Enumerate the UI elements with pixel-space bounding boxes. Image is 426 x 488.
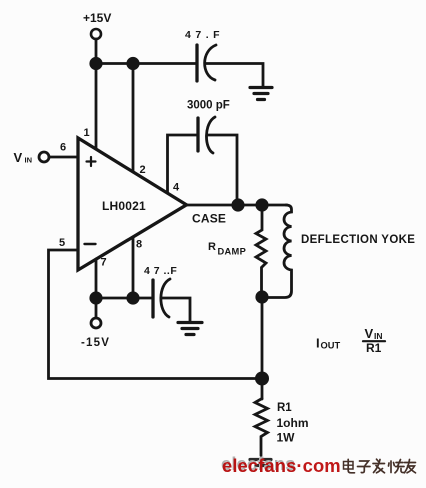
svg-text:-15V: -15V: [81, 337, 110, 349]
svg-text:6: 6: [60, 142, 66, 154]
svg-text:2: 2: [140, 164, 146, 176]
char fa: [373, 459, 385, 473]
svg-text:R1: R1: [366, 341, 382, 355]
op-amp plus input marking: [87, 157, 96, 166]
char dian: [344, 459, 355, 473]
pin 4 label: [173, 182, 180, 194]
resistor R1: [255, 399, 268, 456]
svg-text:1ohm: 1ohm: [277, 416, 309, 430]
resistor RDAMP: [256, 205, 266, 297]
char shao: [389, 460, 405, 473]
pin 2 label: [140, 164, 146, 176]
pin 5 label: [59, 237, 65, 249]
wire yoke bottom down to feedback node: [261, 297, 264, 379]
junction dot at +15V rail left: [89, 57, 102, 70]
CASE label: [192, 212, 226, 226]
junction dot output C2: [231, 198, 244, 211]
svg-text:IN: IN: [374, 331, 383, 341]
wire from +15V terminal down: [95, 39, 98, 64]
junction dot yoke bottom: [255, 290, 268, 303]
watermark elecfans.com: [221, 453, 341, 476]
wire C3 right to ground: [162, 298, 190, 321]
svg-text:1W: 1W: [277, 431, 296, 445]
capacitor C1 4.7uF label: [185, 29, 220, 41]
capacitor C1 curved plate: [205, 45, 216, 80]
wire pin 2 from rail to op-amp: [132, 64, 135, 174]
svg-text:LH0021: LH0021: [102, 199, 146, 213]
svg-text:3000 pF: 3000 pF: [187, 100, 230, 112]
fraction bar: [363, 340, 385, 342]
svg-text:8: 8: [136, 239, 142, 251]
-15V label: [81, 337, 110, 349]
watermark chinese 电子发烧友: [344, 459, 416, 473]
ground G3 under R1: [250, 460, 271, 466]
Vin terminal: [39, 152, 49, 162]
pin 6 label: [60, 142, 66, 154]
capacitor C2 left wire and riser to pin 4: [168, 135, 198, 192]
op-amp minus input marking: [85, 243, 96, 245]
svg-text:elecfans·com: elecfans·com: [222, 455, 341, 476]
svg-text:V: V: [14, 150, 23, 165]
svg-text:OUT: OUT: [321, 341, 341, 351]
wire pin 7 down: [95, 259, 98, 298]
pin 7 label: [101, 257, 107, 269]
capacitor C2 3000pF label: [187, 100, 230, 112]
wire pin 1 from rail to op-amp: [95, 64, 98, 151]
capacitor C3 flat plate: [151, 280, 154, 317]
DEFLECTION YOKE label: [301, 234, 415, 246]
capacitor C2 right wire and riser to output: [207, 135, 237, 205]
wire to R1: [261, 379, 264, 400]
wire -15V rail: [96, 297, 152, 300]
svg-text:I: I: [316, 336, 320, 351]
RDAMP label: [208, 241, 246, 257]
wire to -15V terminal: [95, 298, 98, 318]
svg-text:4 7 ..F: 4 7 ..F: [144, 265, 177, 277]
char you: [405, 460, 416, 473]
svg-text:IN: IN: [25, 156, 33, 165]
Vin label: [14, 150, 33, 165]
wire Vin to pin 6: [49, 156, 78, 159]
capacitor C2 flat plate: [196, 118, 199, 151]
svg-text:CASE: CASE: [192, 212, 226, 226]
feedback wire from pin 5 down and right: [49, 250, 263, 379]
svg-text:DAMP: DAMP: [218, 247, 247, 257]
output wire from op-amp: [187, 204, 288, 207]
op-amp name LH0021: [102, 199, 146, 213]
svg-text:R1: R1: [277, 402, 292, 414]
char zi: [358, 461, 371, 473]
+15V label: [83, 11, 111, 25]
junction dot output yoke: [255, 198, 268, 211]
junction dot pin8: [126, 291, 139, 304]
svg-text:1: 1: [84, 127, 90, 139]
ground G1: [250, 88, 272, 100]
wire top rail to C1: [96, 62, 196, 65]
pin 1 label: [84, 127, 90, 139]
junction dot at +15V rail pin2: [126, 57, 139, 70]
svg-text:DEFLECTION YOKE: DEFLECTION YOKE: [301, 234, 415, 246]
svg-text:R: R: [208, 241, 216, 253]
svg-text:V: V: [365, 326, 374, 341]
junction dot feedback node: [255, 372, 269, 386]
+15V terminal: [91, 29, 101, 39]
capacitor C2 curved plate: [206, 117, 215, 153]
svg-text:7: 7: [101, 257, 107, 269]
svg-text:4: 4: [173, 182, 180, 194]
wire C1 right to ground: [206, 64, 263, 87]
op-amp U1 LH0021 triangle: [78, 138, 187, 270]
svg-text:5: 5: [59, 237, 65, 249]
svg-text:+15V: +15V: [83, 11, 111, 25]
R1 labels: [277, 402, 309, 445]
junction dot pin7: [89, 291, 102, 304]
-15V terminal: [91, 318, 101, 328]
deflection yoke inductor: [262, 205, 292, 298]
ground G2: [178, 323, 202, 335]
Iout formula: [316, 326, 383, 355]
svg-text:4 7 . F: 4 7 . F: [185, 29, 220, 41]
capacitor C3 4.7uF label: [144, 265, 177, 277]
capacitor C3 curved plate: [161, 279, 170, 317]
pin 8 label: [136, 239, 142, 251]
capacitor C1 flat plate: [195, 45, 198, 81]
wire pin 8 down: [132, 237, 135, 298]
